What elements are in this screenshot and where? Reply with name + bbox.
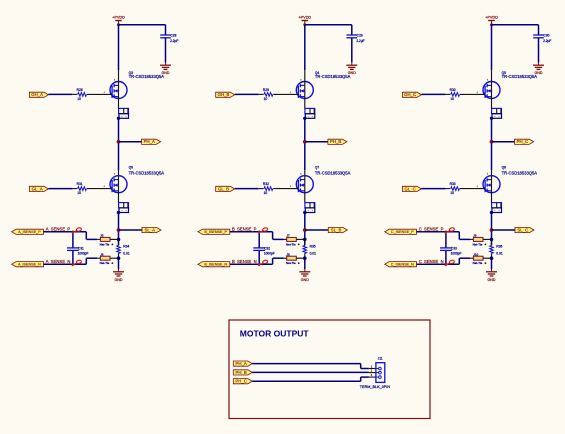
svg-text:SL_B: SL_B: [331, 227, 342, 232]
svg-text:Net-Tie: Net-Tie: [473, 261, 483, 265]
svg-text:PH_A: PH_A: [235, 361, 246, 366]
svg-text:Net-Tie: Net-Tie: [473, 242, 483, 246]
svg-text:PH_B: PH_B: [330, 139, 341, 144]
svg-text:10: 10: [264, 191, 268, 195]
svg-text:SL_A: SL_A: [145, 227, 156, 232]
svg-text:R32: R32: [263, 182, 269, 186]
svg-text:A_ISENSE_P: A_ISENSE_P: [18, 230, 41, 234]
svg-text:PH_C: PH_C: [517, 139, 528, 144]
svg-text:GND: GND: [488, 278, 496, 282]
svg-text:Q7: Q7: [315, 166, 319, 170]
svg-text:R28: R28: [77, 88, 83, 92]
svg-text:R31: R31: [77, 182, 83, 186]
svg-text:0.01: 0.01: [310, 252, 317, 256]
svg-text:B_ISENSE_N: B_ISENSE_N: [204, 263, 227, 267]
svg-text:Net-Tie: Net-Tie: [286, 242, 296, 246]
svg-text:PH_A: PH_A: [144, 139, 155, 144]
svg-text:C_SENSE_N: C_SENSE_N: [419, 259, 444, 264]
svg-text:B_SENSE_N: B_SENSE_N: [232, 259, 257, 264]
svg-text:PH_B: PH_B: [235, 370, 246, 375]
svg-text:TERM_BLK_3PIN: TERM_BLK_3PIN: [360, 385, 391, 389]
svg-text:R30: R30: [450, 88, 456, 92]
svg-text:B_SENSE_P: B_SENSE_P: [232, 227, 257, 232]
svg-text:10: 10: [77, 97, 81, 101]
svg-text:GND: GND: [115, 278, 123, 282]
svg-text:B_ISENSE_P: B_ISENSE_P: [204, 230, 227, 234]
svg-text:1000pF: 1000pF: [451, 252, 462, 256]
svg-text:1000pF: 1000pF: [264, 252, 275, 256]
svg-text:Net-Tie: Net-Tie: [100, 242, 110, 246]
svg-text:0.01: 0.01: [496, 252, 503, 256]
svg-text:R36: R36: [496, 244, 502, 248]
svg-text:Q8: Q8: [502, 166, 506, 170]
svg-text:TR-CSD18533Q5A: TR-CSD18533Q5A: [129, 170, 165, 175]
svg-text:GL_C: GL_C: [404, 186, 415, 191]
svg-text:TR-CSD18533Q5A: TR-CSD18533Q5A: [502, 74, 538, 79]
svg-text:J10: J10: [473, 252, 478, 256]
svg-text:2.2µF: 2.2µF: [170, 39, 178, 43]
svg-text:GH_A: GH_A: [31, 92, 43, 97]
svg-text:J8: J8: [287, 252, 291, 256]
svg-text:C32: C32: [264, 247, 270, 251]
svg-text:R34: R34: [123, 244, 129, 248]
svg-text:C28: C28: [171, 34, 177, 38]
svg-text:10: 10: [450, 191, 454, 195]
svg-text:A_ISENSE_N: A_ISENSE_N: [18, 263, 41, 267]
svg-text:J6: J6: [100, 252, 104, 256]
svg-text:R35: R35: [310, 244, 316, 248]
svg-text:C30: C30: [544, 34, 550, 38]
svg-text:GND: GND: [301, 278, 309, 282]
svg-text:C_ISENSE_P: C_ISENSE_P: [391, 230, 414, 234]
svg-text:PH_C: PH_C: [235, 379, 246, 384]
svg-text:C33: C33: [451, 247, 457, 251]
svg-text:+PVDD: +PVDD: [112, 16, 125, 20]
svg-text:MOTOR OUTPUT: MOTOR OUTPUT: [240, 329, 310, 339]
svg-text:A_SENSE_N: A_SENSE_N: [46, 259, 71, 264]
svg-text:GL_A: GL_A: [32, 186, 43, 191]
svg-text:C_SENSE_P: C_SENSE_P: [419, 227, 444, 232]
svg-text:J9: J9: [473, 234, 477, 238]
svg-text:1000pF: 1000pF: [78, 252, 89, 256]
svg-text:J5: J5: [100, 234, 104, 238]
svg-text:R33: R33: [450, 182, 456, 186]
svg-text:2.2µF: 2.2µF: [543, 39, 551, 43]
svg-text:TR-CSD18533Q5A: TR-CSD18533Q5A: [315, 170, 351, 175]
svg-text:GH_B: GH_B: [218, 92, 230, 97]
svg-text:GH_C: GH_C: [404, 92, 416, 97]
svg-text:10: 10: [264, 97, 268, 101]
svg-text:TR-CSD18533Q5A: TR-CSD18533Q5A: [502, 170, 538, 175]
svg-text:R29: R29: [263, 88, 269, 92]
svg-text:TR-CSD18533Q5A: TR-CSD18533Q5A: [129, 74, 165, 79]
svg-text:10: 10: [450, 97, 454, 101]
svg-text:TR-CSD18533Q5A: TR-CSD18533Q5A: [315, 74, 351, 79]
svg-text:J7: J7: [287, 234, 291, 238]
svg-text:GL_B: GL_B: [218, 186, 229, 191]
svg-text:+PVDD: +PVDD: [298, 16, 311, 20]
svg-text:C_ISENSE_N: C_ISENSE_N: [391, 263, 414, 267]
svg-text:A_SENSE_P: A_SENSE_P: [46, 227, 71, 232]
svg-text:J11: J11: [378, 356, 383, 360]
svg-text:+PVDD: +PVDD: [485, 16, 498, 20]
svg-text:Net-Tie: Net-Tie: [286, 261, 296, 265]
svg-text:C29: C29: [357, 34, 363, 38]
svg-text:Net-Tie: Net-Tie: [100, 261, 110, 265]
svg-text:10: 10: [77, 191, 81, 195]
svg-text:0.01: 0.01: [123, 252, 130, 256]
svg-text:C31: C31: [78, 247, 84, 251]
svg-text:Q6: Q6: [129, 166, 133, 170]
svg-text:SL_C: SL_C: [517, 227, 528, 232]
svg-text:2.2µF: 2.2µF: [356, 39, 364, 43]
